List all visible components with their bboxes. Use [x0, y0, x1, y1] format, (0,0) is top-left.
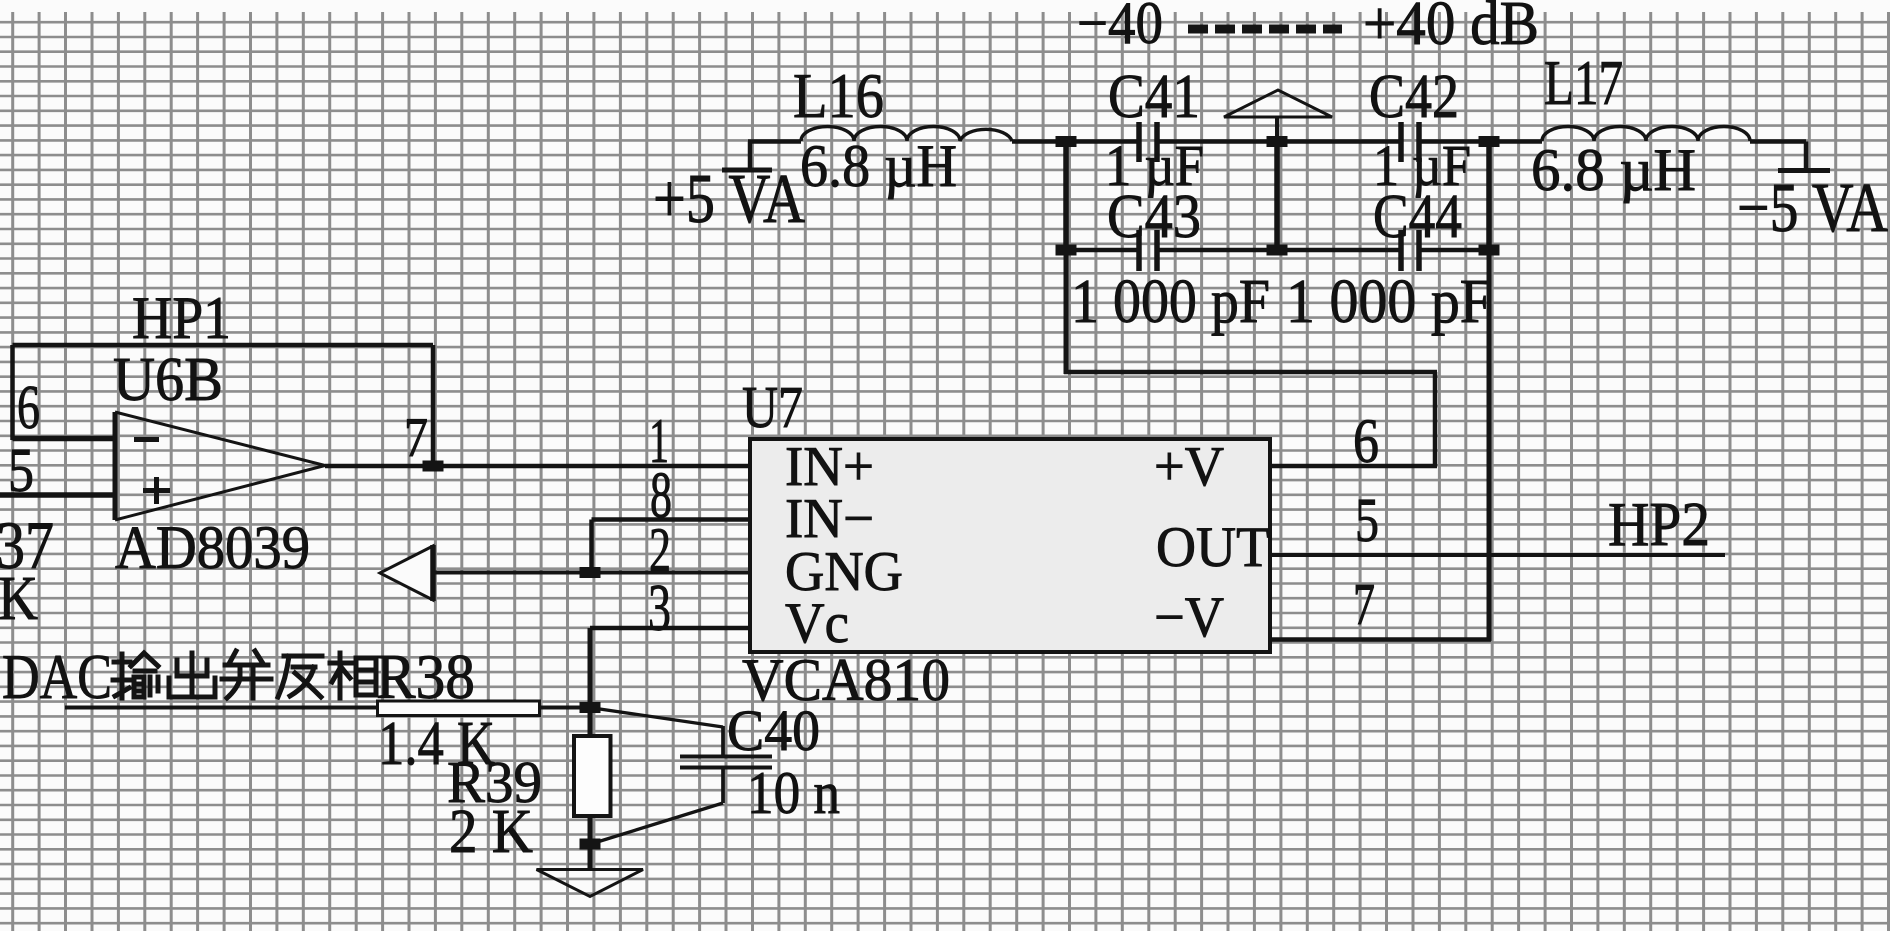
- svg-text:6: 6: [17, 374, 40, 442]
- resistor R39 body: [574, 736, 611, 816]
- capacitor C44: [1401, 230, 1419, 271]
- svg-text:R38: R38: [376, 641, 475, 712]
- capacitor C41: [1139, 122, 1157, 162]
- wire L16 to node A: [1012, 139, 1070, 144]
- wire vertical tie node A to node D: [1063, 142, 1069, 251]
- wire L17 to -5VA stub: [1750, 139, 1806, 144]
- IC U7 VCA810 body: [750, 439, 1270, 652]
- wire second rail: C44 to node F: [1419, 248, 1489, 253]
- node E junction (second rail center): [1267, 245, 1288, 256]
- op-amp minus input sign: [134, 437, 159, 442]
- svg-text:+5 VA: +5 VA: [653, 161, 805, 238]
- wire op-amp pin 5 stub: [0, 492, 115, 498]
- svg-text:6.8 µH: 6.8 µH: [800, 133, 957, 199]
- wire DAC net to R38: [65, 706, 378, 710]
- svg-text:+V: +V: [1154, 436, 1224, 498]
- wire +V supply: horizontal: [1064, 370, 1437, 375]
- wire -5VA terminal bar: [1778, 168, 1830, 173]
- wire top rail: node A to C41: [1066, 139, 1139, 144]
- junction GNG node: [580, 567, 601, 578]
- resistor R38 body: [378, 701, 540, 716]
- svg-text:C41: C41: [1108, 63, 1200, 131]
- wire vertical GNG node to IN- wire: [589, 520, 594, 573]
- wire second rail: node D to C43: [1066, 248, 1139, 253]
- wire HP1 loop top: [13, 343, 434, 348]
- junction R39 / C40 bottom node: [580, 839, 601, 850]
- wire +V supply: down to +V pin: [1433, 372, 1438, 466]
- wire R38 to Vc node: [540, 706, 591, 710]
- wire node C to L17: [1489, 139, 1542, 144]
- chinese char bing: [222, 651, 271, 698]
- svg-text:1 000 pF: 1 000 pF: [1071, 268, 1270, 336]
- capacitor C43: [1139, 230, 1157, 271]
- wire Vc pin 3: [590, 626, 750, 631]
- wire C40 bottom diagonal lead: [594, 803, 723, 843]
- wire top rail: node B to C42: [1277, 139, 1401, 144]
- node D junction (second rail left): [1056, 245, 1077, 256]
- svg-text:−5 VA: −5 VA: [1737, 170, 1888, 247]
- junction op-amp output node: [423, 461, 444, 472]
- capacitor C42: [1401, 122, 1419, 162]
- svg-text:OUT: OUT: [1156, 516, 1270, 579]
- junction Vc / R38 / C40 node: [580, 702, 601, 713]
- svg-text:U7: U7: [742, 374, 803, 440]
- wire op-amp output to U7 pin 1: [325, 464, 750, 469]
- wire vertical tie node B to node E: [1274, 142, 1280, 251]
- wire op-amp pin 6 stub: [13, 436, 116, 442]
- wire +V pin 6: [1270, 464, 1437, 469]
- svg-text:L17: L17: [1544, 47, 1623, 118]
- wire IN- pin 8: [592, 517, 751, 522]
- chinese char shu (output) 1: [113, 653, 158, 698]
- wire OUT pin 5 to HP2: [1270, 553, 1725, 557]
- wire top rail: C42 to node C: [1419, 139, 1489, 144]
- chinese char chu (output) 2: [169, 653, 215, 697]
- inductor L16: [801, 127, 1012, 141]
- node B junction (top rail center): [1267, 136, 1288, 147]
- svg-text:3: 3: [648, 571, 671, 645]
- svg-text:HP1: HP1: [132, 285, 231, 351]
- wire second rail: C43 to node E: [1157, 248, 1277, 253]
- wire top rail: C41 to node B: [1157, 139, 1277, 144]
- svg-text:6.8 µH: 6.8 µH: [1531, 137, 1696, 203]
- op-amp U6B triangle: [113, 412, 118, 520]
- svg-text:C42: C42: [1369, 63, 1459, 131]
- wire C40 bottom lead vertical: [721, 768, 725, 804]
- chinese char xiang: [330, 653, 376, 698]
- svg-text:Vc: Vc: [785, 592, 849, 655]
- svg-text:VCA810: VCA810: [742, 647, 950, 713]
- ground symbol (bottom): [537, 870, 644, 897]
- svg-text:−V: −V: [1154, 586, 1224, 649]
- capacitor C40 plates: [680, 757, 772, 768]
- svg-text:5: 5: [8, 437, 34, 505]
- analog ground symbol (top) stem: [1275, 117, 1279, 142]
- wire -5VA vertical stub: [1804, 142, 1809, 171]
- wire +5VA vertical stub: [748, 142, 753, 169]
- wire Vc vertical lower (below R39): [588, 815, 593, 871]
- dashed gain line: [1188, 25, 1342, 34]
- wire +5VA terminal bar: [722, 168, 772, 173]
- svg-text:10 n: 10 n: [747, 760, 840, 826]
- wire C40 top diagonal lead: [593, 708, 723, 727]
- svg-text:2 K: 2 K: [449, 798, 533, 866]
- svg-text:HP2: HP2: [1608, 491, 1710, 559]
- chinese char fan: [278, 656, 322, 697]
- svg-text:DAC: DAC: [2, 641, 112, 712]
- wire +V supply: node D down: [1064, 250, 1069, 374]
- wire C40 top lead vertical: [721, 726, 725, 757]
- wire HP1 loop left vertical: [10, 345, 15, 440]
- wire second rail: node E to C44: [1277, 248, 1401, 253]
- wire vertical tie node C to node F: [1486, 142, 1492, 251]
- node C junction (top rail right): [1479, 136, 1500, 147]
- svg-text:C43: C43: [1107, 183, 1201, 251]
- wire -V supply: node F down long vertical: [1487, 250, 1492, 641]
- svg-text:L16: L16: [793, 60, 884, 131]
- node F junction (second rail right): [1479, 245, 1500, 256]
- wire HP1 loop right vertical: [431, 345, 436, 466]
- off-page arrow (left): [380, 546, 433, 600]
- svg-text:AD8039: AD8039: [115, 515, 310, 582]
- inductor L17: [1542, 127, 1750, 141]
- op-amp plus input sign: [143, 488, 170, 493]
- svg-text:7: 7: [404, 407, 428, 469]
- svg-text:C44: C44: [1373, 183, 1462, 251]
- svg-text:1 000 pF: 1 000 pF: [1286, 268, 1492, 336]
- wire arrow to GNG pin 2: [433, 571, 750, 575]
- svg-text:6: 6: [1353, 406, 1379, 476]
- svg-text:U6B: U6B: [113, 346, 223, 414]
- analog ground symbol (top) triangle: [1224, 90, 1332, 117]
- svg-text:+40 dB: +40 dB: [1363, 0, 1539, 58]
- wire +5VA to L16: [748, 139, 801, 144]
- svg-text:5: 5: [1355, 487, 1379, 555]
- wire -V pin 7: [1270, 637, 1491, 642]
- wire Vc vertical upper: [588, 628, 593, 737]
- svg-text:K: K: [0, 565, 38, 633]
- svg-text:7: 7: [1353, 571, 1375, 637]
- node A junction (top rail left): [1056, 136, 1077, 147]
- svg-text:−40: −40: [1077, 0, 1163, 56]
